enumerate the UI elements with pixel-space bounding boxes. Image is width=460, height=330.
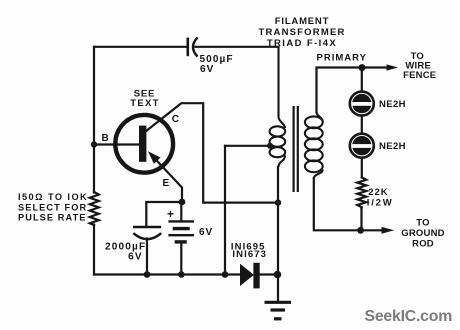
svg-text:TRANSFORMER: TRANSFORMER: [258, 27, 345, 38]
svg-text:TEXT: TEXT: [130, 98, 159, 109]
wire transformer left node vertical: [277, 167, 279, 301]
node collector/winding junction dot: [275, 199, 281, 205]
wire between lamps: [361, 117, 363, 133]
svg-text:+: +: [167, 207, 174, 221]
neon lamp DS1 NE2H: [350, 92, 375, 116]
svg-text:NE2H: NE2H: [379, 99, 406, 110]
ground symbol: [265, 302, 292, 319]
svg-text:6V: 6V: [200, 64, 214, 75]
svg-text:B: B: [102, 133, 109, 144]
arrow to ground rod: [382, 227, 395, 234]
wire battery bottom lead: [180, 244, 182, 275]
label 150 ohm to 10K select for pulse rate: [18, 192, 88, 223]
capacitor C1 500uF plates: [188, 37, 198, 56]
node primary/fence junction dot: [359, 64, 366, 71]
wire primary bottom to ground rod: [314, 179, 382, 231]
wire bottom rail: [94, 273, 240, 275]
diode D1 cathode bar: [253, 263, 259, 289]
wire base: [94, 143, 140, 145]
node tap bottom junction dot: [222, 271, 229, 278]
node diode/ground junction dot: [274, 271, 282, 279]
transistor Q1 emitter arrow: [148, 151, 161, 164]
wire top rail left (battery/base rail to C1): [94, 46, 188, 48]
transformer T1 right winding: [305, 112, 323, 179]
label filament transformer triad F-14X: [258, 16, 345, 49]
transistor Q1 emitter line: [151, 155, 182, 203]
wire lamp chain top: [361, 68, 363, 91]
svg-text:22K: 22K: [368, 187, 388, 198]
wire tap horizontal: [225, 145, 270, 147]
wire tap vertical: [224, 146, 226, 275]
svg-text:I50Ω TO IOK: I50Ω TO IOK: [18, 192, 88, 202]
svg-text:SeekIC.com: SeekIC.com: [365, 308, 453, 325]
svg-text:TO: TO: [416, 218, 429, 229]
node battery bottom junction dot: [178, 271, 185, 278]
wire diode to ground node: [260, 273, 278, 275]
wire primary top: [317, 68, 388, 113]
transistor Q1 circle: [115, 115, 173, 173]
wire left vertical lower: [93, 225, 95, 275]
svg-text:E: E: [163, 178, 170, 189]
svg-text:6V: 6V: [199, 227, 213, 238]
wire emitter horizontal + C2 riser: [146, 202, 182, 227]
svg-text:INI673: INI673: [232, 249, 267, 260]
label TO WIRE FENCE: [403, 51, 436, 81]
node C2 bottom junction dot: [144, 271, 151, 278]
node ground rod junction dot: [357, 227, 364, 234]
wire battery top lead: [180, 202, 182, 221]
node emitter/battery junction dot: [179, 199, 186, 206]
diode D1 triangle: [240, 264, 254, 286]
label 2000uF 6V: [105, 242, 146, 263]
svg-text:FILAMENT: FILAMENT: [275, 16, 329, 27]
wire C1 to transformer: [196, 46, 279, 48]
svg-text:PULSE RATE: PULSE RATE: [18, 213, 87, 223]
wire C2 bottom lead: [146, 239, 148, 275]
svg-text:6V: 6V: [128, 251, 143, 262]
label 500uF 6V: [200, 54, 234, 75]
battery BT1 6V plates: [168, 221, 194, 242]
wire lamp2 to R2: [361, 159, 363, 178]
svg-text:I/2W: I/2W: [367, 197, 394, 208]
label IN1695 IN1673: [231, 241, 267, 260]
svg-text:FENCE: FENCE: [403, 70, 436, 81]
wire left vertical upper: [93, 47, 95, 193]
wire collector path: [146, 103, 278, 202]
node B junction dot: [91, 141, 97, 147]
neon lamp DS2 NE2H: [350, 134, 375, 158]
transformer T1 core: [294, 106, 298, 192]
svg-text:GROUND: GROUND: [401, 228, 444, 239]
svg-text:ROD: ROD: [412, 238, 434, 249]
wire R2 to ground rod rail: [360, 209, 362, 231]
label SEE TEXT: [130, 88, 159, 109]
node tap junction dot: [267, 143, 273, 149]
resistor R1 pulse-rate zigzag: [90, 192, 99, 225]
svg-text:TRIAD F-I4X: TRIAD F-I4X: [267, 38, 337, 49]
resistor R2 22K zigzag: [357, 178, 366, 209]
label 22K 1/2W: [367, 187, 394, 208]
transistor Q1 base bar: [139, 126, 146, 162]
svg-text:NE2H: NE2H: [379, 141, 406, 152]
svg-text:C: C: [172, 114, 179, 125]
capacitor C2 2000uF plates: [133, 227, 161, 239]
transformer T1 left winding: [270, 47, 286, 167]
arrow to wire fence: [387, 64, 399, 70]
label TO GROUND ROD: [401, 218, 444, 250]
svg-text:PRIMARY: PRIMARY: [317, 52, 367, 63]
svg-text:SELECT FOR: SELECT FOR: [18, 203, 87, 213]
